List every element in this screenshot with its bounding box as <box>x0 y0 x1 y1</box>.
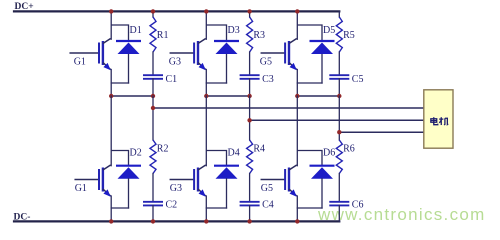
junction mid rail right leg3 <box>337 94 341 98</box>
wire phase output leg1 <box>153 107 424 109</box>
wire C6 bottom lead <box>338 205 340 221</box>
svg-text:C4: C4 <box>262 200 274 211</box>
svg-text:R6: R6 <box>343 144 355 155</box>
IGBT G5 transistor <box>285 39 297 71</box>
svg-text:G1: G1 <box>75 183 87 194</box>
wire C4 bottom lead <box>249 205 251 221</box>
svg-text:C2: C2 <box>166 200 178 211</box>
capacitor C2 <box>143 202 163 206</box>
wire emitter link leg3 top <box>297 82 322 84</box>
svg-text:C3: C3 <box>262 74 274 85</box>
junction top rail at IGBT leg2 <box>204 9 208 13</box>
capacitor C1 <box>143 75 163 79</box>
IGBT gate wire G5 <box>261 179 284 181</box>
wire diode D5 anode lead <box>321 55 323 84</box>
wire resistor R1 top lead <box>152 11 154 17</box>
wire diode branch D2 <box>111 151 128 166</box>
junction top rail at IGBT leg1 <box>109 9 113 13</box>
wire R4 top lead / phase tap leg2 <box>249 96 251 140</box>
junction mid rail left leg3 <box>295 94 299 98</box>
wire collector leg1 top <box>110 11 112 39</box>
wire R2 to C2 <box>152 174 154 202</box>
wire diode branch D1 <box>111 25 128 40</box>
resistor R3 <box>247 17 253 52</box>
DC- bottom rail wire <box>14 220 339 222</box>
mid rail leg3 <box>297 95 339 97</box>
svg-text:D4: D4 <box>228 148 240 159</box>
diode D4 <box>214 166 239 179</box>
capacitor C5 <box>329 75 349 79</box>
wire diode D4 anode lead <box>226 179 228 208</box>
junction top rail at IGBT leg3 <box>295 9 299 13</box>
svg-text:R4: R4 <box>253 144 265 155</box>
junction phase tap leg3 <box>337 130 341 134</box>
wire R6 top lead / phase tap leg3 <box>338 96 340 140</box>
wire emitter leg2 bottom <box>205 196 207 221</box>
wire emitter leg2 top <box>205 70 207 97</box>
IGBT gate wire G5 <box>261 52 284 54</box>
resistor R6 <box>336 140 342 174</box>
svg-text:D3: D3 <box>228 25 240 36</box>
capacitor C3 <box>240 75 260 79</box>
junction top rail at R1 <box>151 9 155 13</box>
diode D3 <box>214 41 239 54</box>
wire C1 bottom lead <box>152 79 154 96</box>
junction top rail at R3 <box>247 9 251 13</box>
wire collector leg1 bottom <box>110 96 112 166</box>
motor block U1 <box>424 90 453 148</box>
wire emitter link leg1 bottom <box>111 207 128 209</box>
wire emitter link leg2 bottom <box>206 207 226 209</box>
wire C5 bottom lead <box>338 79 340 96</box>
capacitor C4 <box>240 202 260 206</box>
resistor R5 <box>336 17 342 52</box>
resistor R4 <box>247 140 253 174</box>
svg-text:R2: R2 <box>157 144 169 155</box>
IGBT G3 transistor <box>194 39 206 71</box>
IGBT G5 transistor <box>285 165 297 197</box>
wire emitter leg3 bottom <box>296 196 298 221</box>
junction bottom rail at R4 <box>247 219 251 223</box>
wire R2 top lead / phase tap leg1 <box>152 96 154 140</box>
svg-text:G3: G3 <box>170 183 182 194</box>
wire collector leg3 bottom <box>296 96 298 166</box>
IGBT G3 transistor <box>194 165 206 197</box>
wire diode branch D4 <box>206 151 226 166</box>
wire R6 to C6 <box>338 174 340 202</box>
svg-text:G5: G5 <box>261 183 273 194</box>
wire emitter leg1 top <box>110 70 112 97</box>
wire diode branch D3 <box>206 25 226 40</box>
wire diode branch D6 <box>297 151 322 166</box>
svg-text:G1: G1 <box>74 57 86 68</box>
wire emitter leg3 top <box>296 70 298 97</box>
junction bottom rail at R2 <box>151 219 155 223</box>
resistor R2 <box>150 140 156 174</box>
svg-text:C6: C6 <box>352 200 364 211</box>
diode D2 <box>116 166 141 179</box>
diode D5 <box>310 41 335 54</box>
junction phase tap leg2 <box>247 118 251 122</box>
wire emitter link leg1 top <box>111 82 128 84</box>
junction mid rail right leg2 <box>247 94 251 98</box>
junction mid rail left leg1 <box>109 94 113 98</box>
wire C2 bottom lead <box>152 205 154 221</box>
wire diode D3 anode lead <box>226 55 228 84</box>
wire R3 to C3 <box>249 52 251 75</box>
wire emitter leg1 bottom <box>110 196 112 221</box>
wire diode branch D5 <box>297 25 322 40</box>
svg-text:R3: R3 <box>253 30 265 41</box>
junction mid rail right leg1 <box>151 94 155 98</box>
svg-text:D6: D6 <box>323 148 335 159</box>
wire C3 bottom lead <box>249 79 251 96</box>
junction bottom rail at IGBT leg1 <box>109 219 113 223</box>
IGBT gate wire G3 <box>170 179 193 181</box>
diode D6 <box>310 166 335 179</box>
svg-text:R1: R1 <box>157 30 169 41</box>
IGBT G1 transistor <box>99 39 111 71</box>
svg-text:D1: D1 <box>130 25 142 36</box>
motor label (dian ji) <box>431 117 448 125</box>
wire diode D1 anode lead <box>128 55 130 84</box>
svg-text:D2: D2 <box>130 148 142 159</box>
svg-text:www.cntronics.com: www.cntronics.com <box>317 205 486 224</box>
svg-text:G3: G3 <box>169 57 181 68</box>
IGBT gate wire G1 <box>70 52 98 54</box>
IGBT gate wire G3 <box>170 52 193 54</box>
wire collector leg3 top <box>296 11 298 39</box>
svg-text:C1: C1 <box>166 74 178 85</box>
IGBT gate wire G1 <box>75 179 98 181</box>
wire phase output leg2 <box>250 119 424 121</box>
junction phase tap leg1 <box>151 106 155 110</box>
wire emitter link leg2 top <box>206 82 226 84</box>
junction mid rail left leg2 <box>204 94 208 98</box>
wire diode D2 anode lead <box>128 179 130 208</box>
wire R5 to C5 <box>338 52 340 75</box>
wire emitter link leg3 bottom <box>297 207 322 209</box>
svg-text:D5: D5 <box>323 25 335 36</box>
wire resistor R5 top lead <box>338 11 340 17</box>
IGBT G1 transistor <box>99 165 111 197</box>
wire collector leg2 bottom <box>205 96 207 166</box>
wire R4 to C4 <box>249 174 251 202</box>
junction bottom rail at IGBT leg3 <box>295 219 299 223</box>
wire R1 to C1 <box>152 52 154 75</box>
DC+ top rail wire <box>14 10 339 12</box>
svg-text:G5: G5 <box>260 57 272 68</box>
wire diode D6 anode lead <box>321 179 323 208</box>
mid rail leg2 <box>206 95 249 97</box>
diode D1 <box>116 41 141 54</box>
wire resistor R3 top lead <box>249 11 251 17</box>
mid rail leg1 <box>111 95 153 97</box>
capacitor C6 <box>329 202 349 206</box>
svg-text:C5: C5 <box>352 74 364 85</box>
svg-text:R5: R5 <box>343 30 355 41</box>
resistor R1 <box>150 17 156 52</box>
junction bottom rail at IGBT leg2 <box>204 219 208 223</box>
wire collector leg2 top <box>205 11 207 39</box>
wire phase output leg3 <box>339 131 424 133</box>
